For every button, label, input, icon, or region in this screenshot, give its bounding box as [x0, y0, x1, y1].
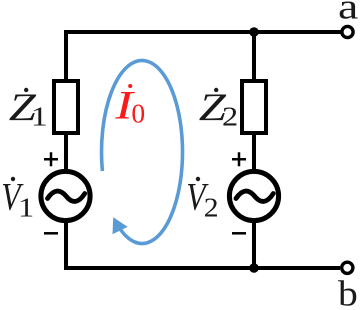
svg-text:0: 0 — [131, 99, 145, 129]
svg-text:b: b — [338, 274, 358, 310]
svg-text:a: a — [338, 0, 358, 26]
svg-text:1: 1 — [31, 102, 48, 132]
svg-text:1: 1 — [18, 193, 34, 223]
svg-text:2: 2 — [222, 102, 238, 132]
svg-text:2: 2 — [204, 194, 219, 223]
